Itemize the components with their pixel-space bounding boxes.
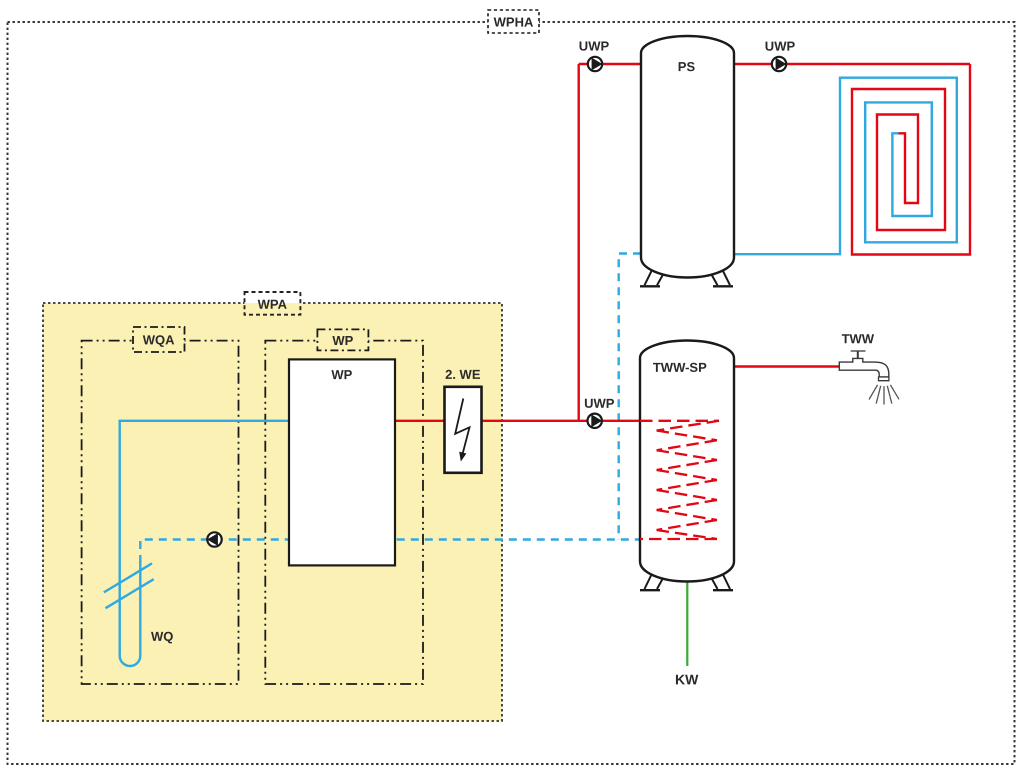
WQA area border <box>82 341 239 684</box>
wire blue dashed WQ return from WP <box>140 540 640 564</box>
svg-text:PS: PS <box>678 59 696 74</box>
pump WQ brine <box>207 532 222 546</box>
pump UWP middle <box>584 396 615 428</box>
svg-text:KW: KW <box>675 671 699 687</box>
wire red riser to PS <box>578 64 580 421</box>
WP label box <box>317 329 368 350</box>
wire red PS to heating loop <box>733 63 970 65</box>
svg-text:UWP: UWP <box>584 396 615 411</box>
heating loop blue spiral <box>734 78 957 255</box>
svg-text:WP: WP <box>331 367 352 382</box>
wire red TWW-SP to faucet <box>733 365 840 367</box>
pump UWP top-right <box>765 39 796 72</box>
svg-text:WQ: WQ <box>151 629 173 644</box>
coil red dashed heat exchanger in TWW-SP <box>640 421 719 539</box>
svg-text:2. WE: 2. WE <box>445 367 481 382</box>
heater 2.WE box <box>445 387 482 473</box>
svg-text:UWP: UWP <box>765 39 796 54</box>
tank PS legs <box>640 269 733 286</box>
tank TWW-SP hot water storage <box>640 341 734 582</box>
svg-text:WP: WP <box>332 333 353 348</box>
wire red WP to 2.WE to TWW-SP <box>340 420 640 422</box>
faucet TWW <box>839 351 889 381</box>
WPA label box <box>245 292 301 303</box>
pump UWP top-left <box>579 39 610 72</box>
heater 2.WE lightning bolt <box>455 399 469 456</box>
svg-text:WPHA: WPHA <box>494 15 534 30</box>
svg-text:WPA: WPA <box>258 297 288 312</box>
svg-text:TWW: TWW <box>842 331 875 346</box>
wire blue dashed PS return riser <box>619 254 641 540</box>
WP area border <box>265 341 423 684</box>
wire green KW cold water <box>686 580 688 666</box>
WQ probe slash marks <box>104 563 152 592</box>
WQA label box <box>133 327 185 352</box>
svg-text:TWW-SP: TWW-SP <box>653 360 707 375</box>
WQ probe U-tube <box>120 561 141 666</box>
faucet spray lines <box>869 385 899 405</box>
tank TWW-SP legs <box>640 573 733 591</box>
wire blue solid WQ supply to WP <box>120 421 340 650</box>
wire red top left to PS <box>579 63 642 65</box>
heating loop red spiral <box>852 64 970 255</box>
WPA area yellow zone <box>43 303 502 721</box>
WP unit box <box>289 359 395 565</box>
WPHA label box <box>488 10 539 33</box>
svg-text:UWP: UWP <box>579 39 610 54</box>
svg-text:WQA: WQA <box>143 332 175 347</box>
tank PS buffer storage <box>641 36 734 278</box>
